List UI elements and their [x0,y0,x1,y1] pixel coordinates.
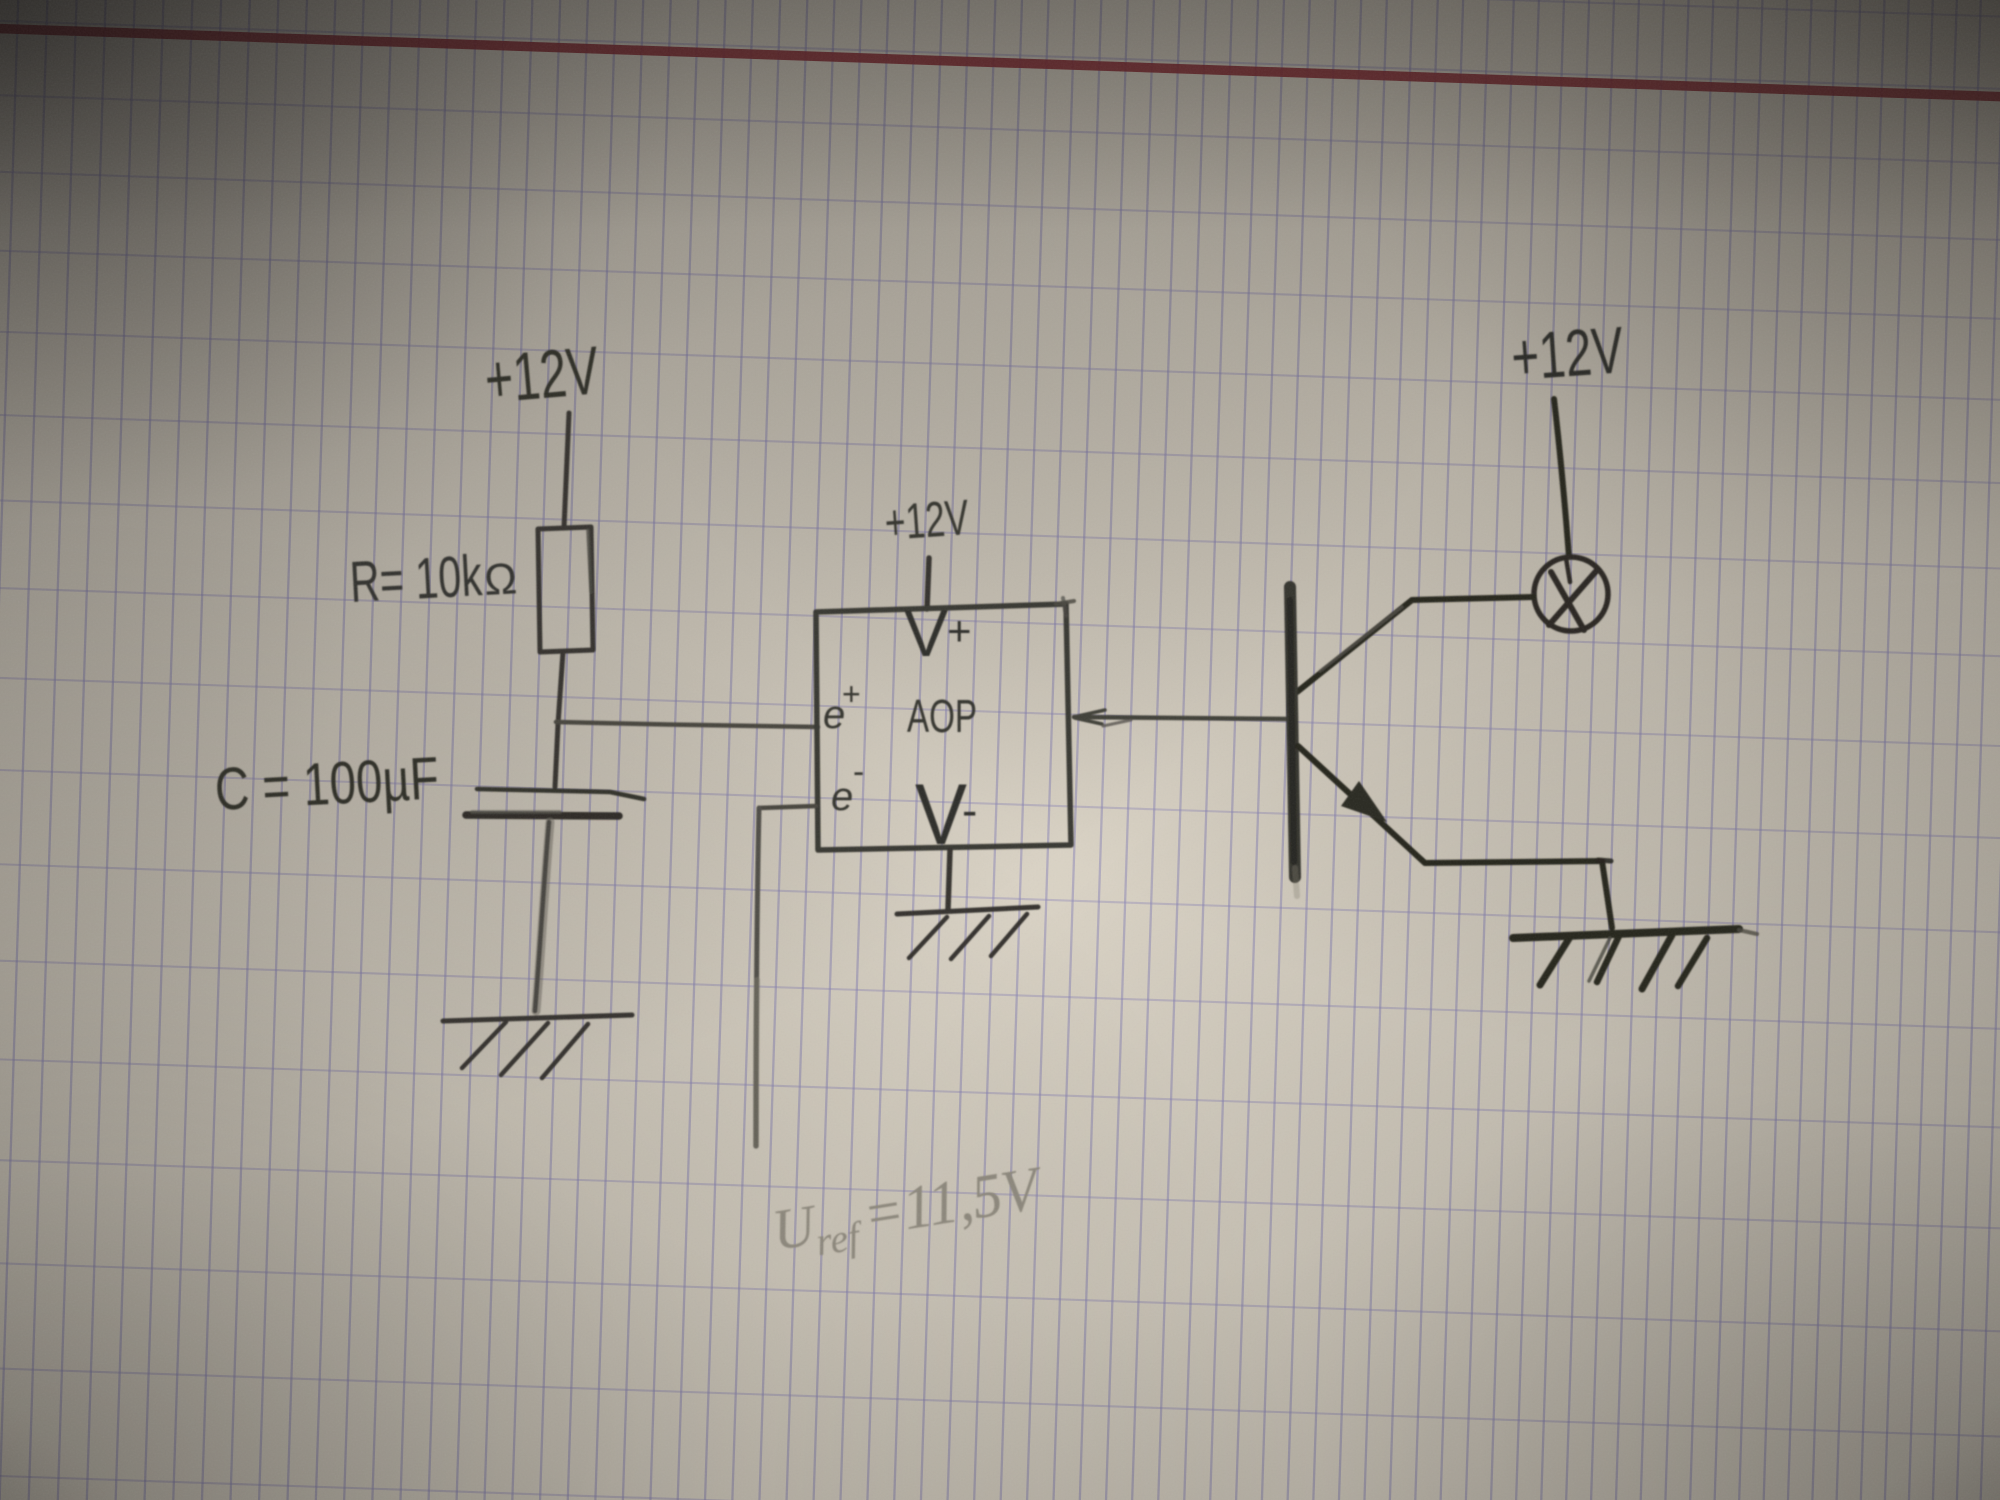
wire node A to op-amp e+ input [556,722,818,727]
label AOP [907,690,977,742]
label C = 100µF [213,744,440,823]
pin label e+ (non-inverting input) [823,676,861,737]
wire capacitor to ground [535,822,550,1011]
op-amp U1 (AOP) body [816,598,1074,850]
lamp L1 (indicator) [1534,557,1608,631]
resistor R [538,527,593,652]
ground (emitter) [1513,929,1757,989]
wire e- input stub [759,806,816,808]
pin label e- (inverting input) [831,753,864,819]
ground (op-amp V-) [897,907,1038,959]
wire op-amp V- to ground [948,850,950,909]
wire +12V to resistor R [564,413,569,528]
wire +12V to lamp [1554,399,1569,557]
wire op-amp output to transistor base [1074,710,1288,726]
net label +12V (left supply) [482,332,603,418]
wire e- to Uref (vertical) [756,808,759,1146]
transistor Q1 base bar [1290,587,1297,896]
wire +12V to op-amp V+ [927,558,929,609]
net label +12V (lamp supply) [1509,312,1626,394]
wire resistor to node A [555,652,563,787]
transistor Q1 emitter with arrow [1298,746,1612,928]
wire lamp to collector [1297,597,1533,692]
net label +12V (op-amp supply) [883,489,971,551]
net label Uref=11,5V [768,1154,1049,1265]
pin label V+ [904,596,972,670]
capacitor C bottom plate [466,812,619,816]
capacitor C top plate [477,789,644,799]
pin label V- [915,767,977,863]
ground (capacitor branch) [443,1015,632,1078]
label R= 10kΩ [348,543,518,615]
